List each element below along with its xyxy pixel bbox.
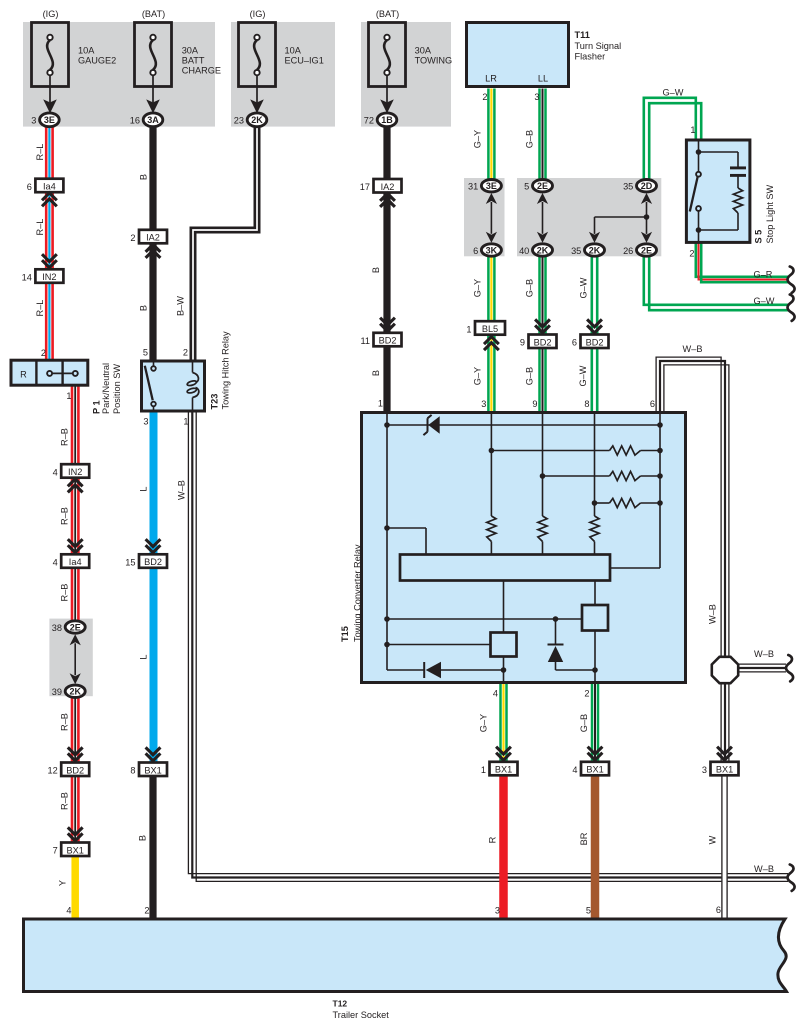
connector BX1 pin 7 [53,843,90,857]
svg-text:Y: Y [58,880,68,886]
zener diode row [387,424,660,426]
svg-text:R–B: R–B [60,792,70,810]
wire W-B junction to connector BX1 [721,681,729,763]
park/neutral position switch P1 [11,360,88,385]
connector arrows below Ia4 [42,193,57,206]
junction arrows 2E-2K [537,193,548,243]
svg-text:BD2: BD2 [534,337,552,347]
resistor in S5 [733,188,742,213]
capacitor in S5 [730,166,746,169]
IC to contact box 2 [594,581,596,606]
junction block panel (fuse TOWING) [361,22,451,127]
fuse 30A BATT ((BAT)) [135,9,222,102]
junction connector (octagon) on W-B [712,657,738,683]
svg-text:R–L: R–L [35,219,45,236]
arrow from fuse to connector [380,99,394,113]
svg-text:Trailer Socket: Trailer Socket [333,1010,390,1020]
svg-text:16: 16 [130,116,140,126]
connector arrows above BX1 [588,747,603,760]
row to box2 [387,618,582,620]
svg-text:2K: 2K [537,245,549,255]
connector arrows above BX1 [68,827,83,840]
svg-text:B: B [371,267,381,273]
svg-text:G–B: G–B [525,130,535,148]
connector BD2 pin 11 [360,333,401,347]
break symbol G-W [788,295,795,321]
svg-text:BX1: BX1 [586,765,603,775]
svg-text:BD2: BD2 [144,557,162,567]
svg-text:B: B [138,835,148,841]
svg-text:BL5: BL5 [482,324,498,334]
connector BD2 pin 15 [125,554,167,568]
connector 3K pin 6 [473,244,501,256]
wire W-B T15 pin 6 up and right down to junction [656,357,729,659]
connector BX1 pin 3 [702,762,739,776]
svg-text:40: 40 [519,246,529,256]
svg-text:LR: LR [485,74,497,84]
svg-text:15: 15 [125,558,135,568]
svg-text:L: L [139,654,149,659]
svg-text:2: 2 [689,249,694,259]
svg-text:31: 31 [468,182,478,192]
svg-text:1: 1 [481,765,486,775]
branch pin1 to IC [387,527,426,529]
connector arrows below BL5 [484,337,499,350]
connector 2K pin 35 [571,244,604,256]
wire G-Y connector BL5 to T15 pin 3 [488,335,494,413]
svg-text:12: 12 [47,766,57,776]
connector arrows above BD2 [587,319,602,332]
connector arrows below IA2 [146,245,161,258]
svg-text:LL: LL [538,74,548,84]
svg-text:1: 1 [378,399,383,409]
connector BD2 pin 12 [47,763,89,777]
svg-text:Towing Hitch Relay: Towing Hitch Relay [221,331,231,410]
svg-text:3: 3 [495,906,500,916]
wire G-W connector BD2 to T15 pin 8 [592,348,597,413]
wire Y connector BX1 to trailer socket pin 4 [71,856,79,919]
svg-text:2: 2 [130,233,135,243]
svg-text:26: 26 [623,246,633,256]
connector IA2 pin 2 [130,230,167,244]
svg-text:G–B: G–B [579,714,589,732]
connector IN2 pin 14 [22,269,64,283]
connector arrows above BD2 [68,747,83,760]
connector 3A pin 16 (fuse BATT CHARGE output) [130,113,163,127]
wire BR connector BX1 to trailer socket pin 5 [591,776,600,919]
svg-text:BX1: BX1 [495,765,512,775]
svg-text:G–Y: G–Y [479,714,489,732]
wire G-W connector 2K to connector BD2 [592,256,597,335]
svg-text:R: R [20,369,27,379]
svg-text:R–B: R–B [60,584,70,602]
arrow from fuse to connector [43,99,57,113]
switch contact in S5 [696,172,701,177]
svg-text:5: 5 [524,182,529,192]
wire W-B junction right to break [737,664,786,672]
connector arrows above Ia4 [68,539,83,552]
svg-text:11: 11 [360,336,370,346]
svg-text:35: 35 [623,182,633,192]
connector BD2 pin 9 [520,335,557,349]
svg-text:ECU–IG1: ECU–IG1 [285,56,324,66]
internal line from pin 1 [386,414,388,670]
svg-text:G–W: G–W [579,277,589,298]
svg-text:BD2: BD2 [66,765,84,775]
svg-text:BX1: BX1 [67,845,84,855]
internal column pin 3 [490,414,492,516]
wire G-B T11 LL pin 3 to connector 2E [540,89,546,181]
svg-text:8: 8 [584,399,589,409]
svg-text:2K: 2K [251,115,263,125]
connector BL5 pin 1 [466,321,505,335]
svg-text:G–W: G–W [754,296,775,306]
svg-text:B–W: B–W [176,296,186,316]
svg-text:G–Y: G–Y [473,130,483,148]
junction dots in T15 [384,422,390,428]
wire B fuse TOWING 1B to connector IA2 [383,127,390,180]
svg-text:4: 4 [53,467,58,477]
svg-text:38: 38 [52,623,62,633]
connector arrows above BX1 [146,747,161,760]
svg-text:6: 6 [473,246,478,256]
wire R-L fuse GAUGE2 3E to connector Ia4 [46,127,52,180]
svg-text:B: B [371,370,381,376]
connector arrows below IN2 [68,479,83,492]
connector BX1 pin 4 [572,762,609,776]
svg-text:2D: 2D [641,181,653,191]
connector panel 3E/3K [464,178,505,256]
connector arrows above BD2 [146,539,161,552]
trailer socket T12 [24,919,787,992]
svg-text:IN2: IN2 [42,272,56,282]
svg-text:2K: 2K [69,687,81,697]
connector 2E pin 5 [524,180,552,192]
svg-text:W–B: W–B [754,649,774,659]
svg-text:3A: 3A [147,115,159,125]
connector 3E pin 3 (fuse GAUGE2 output) [31,113,59,127]
svg-text:7: 7 [53,846,58,856]
connector BX1 pin 8 [130,763,167,777]
svg-text:BR: BR [579,832,589,845]
junction block panel (fuses GAUGE2/BATT CHARGE) [23,22,215,127]
svg-text:3: 3 [31,116,36,126]
connector arrows below IA2 [380,194,395,207]
svg-text:Stop Light SW: Stop Light SW [765,184,775,243]
svg-text:R: R [488,836,498,843]
IC to contact box 1 [503,581,505,633]
svg-text:IN2: IN2 [68,467,82,477]
svg-text:P 1: P 1 [91,400,101,414]
svg-text:G–Y: G–Y [473,367,483,385]
svg-text:4: 4 [66,906,71,916]
svg-text:T11: T11 [575,30,590,40]
break symbol G-R [788,267,795,293]
svg-text:9: 9 [532,399,537,409]
wire G-W connector 2E down and right to break [644,256,788,310]
wire G-Y T15 pin 4 to connector BX1 [501,684,507,763]
svg-text:S 5: S 5 [754,230,764,244]
wire B connector IA2 to T23 pin 5 [149,243,156,361]
connector IA2 pin 17 [360,179,402,193]
connector arrows above BX1 [496,747,511,760]
wire G-B T15 pin 2 to connector BX1 [592,684,598,763]
connector Ia4 pin 4 [53,554,90,568]
connector 2E pin 38 [52,621,85,633]
svg-text:B: B [139,174,149,180]
svg-text:G–B: G–B [525,279,535,297]
wire R-B connector BD2 to connector BX1 [72,776,78,843]
connector arrows above IN2 [42,254,57,267]
wire B connector BX1 to trailer socket pin 2 [149,776,156,919]
relay coil T23 [192,363,194,373]
junction arrows 3E-3K [486,193,497,243]
svg-text:6: 6 [27,182,32,192]
svg-text:T12: T12 [333,998,348,1008]
break symbol W-B bottom [788,865,795,891]
svg-text:5: 5 [143,348,148,358]
svg-text:2: 2 [183,348,188,358]
connector panel 2E/2K/2D [517,178,661,256]
internal column pin 8 [594,414,596,516]
svg-text:9: 9 [520,338,525,348]
svg-text:3: 3 [143,417,148,427]
relay switch contact T23 [151,366,156,371]
svg-text:1: 1 [66,391,71,401]
svg-text:G–W: G–W [578,365,588,386]
connector 2D pin 35 [623,180,656,192]
svg-text:4: 4 [493,689,498,699]
svg-text:R–B: R–B [60,507,70,525]
towing converter relay T15 [362,413,686,684]
svg-text:1B: 1B [381,115,393,125]
svg-text:Position SW: Position SW [112,364,122,414]
svg-text:3K: 3K [486,245,498,255]
wire W-B from T23 pin 1 down and across bottom to break [188,412,788,881]
wire G-B connector 2K to connector BD2 [540,256,546,335]
svg-text:6: 6 [650,399,655,409]
svg-text:6: 6 [572,338,577,348]
svg-text:R–L: R–L [35,144,45,161]
connector Ia4 pin 6 [27,179,64,193]
svg-text:Park/Neutral: Park/Neutral [101,363,111,414]
svg-text:23: 23 [234,116,244,126]
connector 1B pin 72 (fuse TOWING output) [364,113,397,127]
connector IN2 pin 4 [53,464,90,478]
svg-text:GAUGE2: GAUGE2 [78,56,116,66]
svg-text:2: 2 [482,92,487,102]
svg-text:3E: 3E [44,115,55,125]
svg-text:17: 17 [360,182,370,192]
svg-text:R–L: R–L [35,300,45,317]
svg-text:L: L [139,486,149,491]
svg-text:TOWING: TOWING [415,56,453,66]
wire R-L connector Ia4 to connector IN2 [46,191,52,270]
svg-text:BD2: BD2 [379,336,397,346]
connector 3E pin 31 [468,180,501,192]
diode to ground row [555,619,557,644]
wire R-B P1 pin 1 to connector IN2 [72,387,78,465]
resistor row 2 [543,475,610,477]
wire L connector BD2 to connector BX1 [150,568,158,763]
svg-text:2E: 2E [641,245,652,255]
turn signal flasher T11 [467,23,569,87]
stop light switch S5 [686,140,750,242]
wire G-R stop light switch pin 2 right to break [696,243,788,282]
connector BX1 pin 1 [481,762,518,776]
svg-text:39: 39 [52,687,62,697]
svg-text:8: 8 [130,766,135,776]
wire B fuse BATT CHARGE 3A to connector IA2 [149,127,156,231]
svg-text:W–B: W–B [177,480,187,500]
svg-text:G–R: G–R [754,270,773,280]
svg-text:IA2: IA2 [381,182,395,192]
wire R-L connector IN2 to P1 pin 2 [46,282,52,361]
svg-text:G–B: G–B [525,367,535,385]
zener diode [428,416,439,433]
svg-text:Towing Converter Relay: Towing Converter Relay [353,544,363,642]
junction arrows 2E-2K [70,634,81,684]
svg-text:(IG): (IG) [250,9,266,19]
svg-text:2: 2 [41,348,46,358]
wire G-Y T11 LR pin 2 to connector 3E [488,89,494,181]
svg-text:30A: 30A [182,45,199,55]
svg-text:CHARGE: CHARGE [182,66,221,76]
wire W connector BX1 to trailer socket pin 6 [722,776,727,919]
svg-text:BD2: BD2 [586,337,604,347]
svg-text:2E: 2E [70,622,81,632]
IC block [400,555,610,581]
arrow from fuse to connector [146,99,160,113]
connector BD2 pin 6 [572,335,609,349]
svg-text:1: 1 [466,324,471,334]
svg-text:T23: T23 [210,394,220,410]
wire G-B connector BD2 to T15 pin 9 [540,348,546,413]
internal column pin 9 [542,414,544,516]
svg-text:(BAT): (BAT) [142,9,165,19]
svg-text:IA2: IA2 [146,233,160,243]
resistor row 3 [595,502,610,504]
contact box 1 [491,633,517,657]
fuse 30A TOWING ((BAT)) [369,9,453,102]
wire L T23 pin 3 to connector BD2 [150,412,158,555]
connector 2E pin 26 [623,244,656,256]
svg-text:4: 4 [53,558,58,568]
svg-text:2: 2 [584,689,589,699]
resistor row 1 [491,450,609,452]
towing hitch relay T23 [142,361,205,411]
connector arrows above BD2 [380,318,395,331]
svg-text:Flasher: Flasher [575,51,606,61]
fuse 10A GAUGE2 ((IG)) [32,9,117,102]
svg-text:R–B: R–B [60,428,70,446]
svg-text:5: 5 [586,906,591,916]
svg-text:G–Y: G–Y [473,279,483,297]
svg-text:W–B: W–B [754,864,774,874]
wire B connector IA2 to connector BD2 [383,191,390,333]
svg-text:BX1: BX1 [716,765,733,775]
svg-text:2: 2 [144,906,149,916]
svg-text:G–W: G–W [663,88,684,98]
connector arrows above BX1 [717,747,732,760]
svg-text:3: 3 [702,765,707,775]
wire R-B connector Ia4 to connector 2E [72,568,78,622]
row to box1 [387,644,491,646]
svg-text:W: W [708,835,718,844]
arrow from fuse to connector [250,99,264,113]
fuse 10A ECU–IG1 ((IG)) [239,9,324,102]
internal right column pin 6 [659,414,661,568]
bottom diode row [387,669,425,671]
contact box 2 [582,605,608,631]
branch from 2D to 2K and 2E [641,193,652,204]
wire R connector BX1 to trailer socket pin 3 [499,776,508,919]
svg-text:30A: 30A [415,45,432,55]
wire R-B connector IN2 to connector Ia4 [72,478,78,555]
svg-text:4: 4 [572,765,577,775]
svg-text:BATT: BATT [182,56,205,66]
junction block panel (fuse ECU-IG1) [231,22,335,127]
connector 2K pin 40 [519,244,552,256]
svg-text:72: 72 [364,116,374,126]
wire R-B connector 2K to connector BD2 [72,697,78,763]
svg-text:1: 1 [690,125,695,135]
svg-text:6: 6 [716,905,721,915]
svg-text:Turn Signal: Turn Signal [575,41,622,51]
wire B-W fuse ECU-IG1 2K to T23 pin 2 [193,127,257,361]
svg-text:1: 1 [183,417,188,427]
svg-text:3: 3 [481,399,486,409]
svg-text:10A: 10A [78,45,95,55]
connector panel 2E/2K left [49,619,92,697]
wire B connector BD2 to T15 pin 1 [383,347,390,414]
svg-text:T15: T15 [340,626,350,642]
svg-text:(IG): (IG) [43,9,59,19]
svg-text:2E: 2E [537,181,548,191]
svg-text:3: 3 [534,92,539,102]
wire G-Y connector 3K to connector BL5 [488,256,494,322]
connector 2K pin 39 [52,685,85,697]
svg-text:35: 35 [571,246,581,256]
svg-text:3E: 3E [486,181,497,191]
svg-text:Ia4: Ia4 [43,182,56,192]
break symbol W-B right [786,655,793,681]
wire G-W connector 2D up over to stop light switch pin 1 [644,98,701,180]
connector 2K pin 23 (fuse ECU-IG1 output) [234,113,267,127]
svg-text:14: 14 [22,273,32,283]
svg-text:W–B: W–B [683,344,703,354]
svg-text:BX1: BX1 [144,765,161,775]
svg-text:Ia4: Ia4 [69,557,82,567]
svg-text:R–B: R–B [60,713,70,731]
svg-text:(BAT): (BAT) [376,9,399,19]
svg-text:2K: 2K [589,245,601,255]
connector arrows above BD2 [535,319,550,332]
svg-text:10A: 10A [285,45,302,55]
svg-text:B: B [139,305,149,311]
svg-text:W–B: W–B [708,604,718,624]
